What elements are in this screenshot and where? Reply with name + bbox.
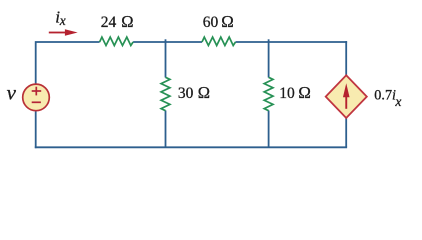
svg-text:60Ω: 60Ω — [203, 12, 234, 31]
dependent source arrow — [343, 83, 350, 109]
svg-text:0.7i: 0.7i — [374, 88, 396, 104]
svg-text:24Ω: 24Ω — [101, 12, 134, 31]
wire right branch upper — [345, 41, 347, 76]
wire bottom — [35, 146, 347, 148]
current arrow i_x — [49, 29, 78, 35]
svg-text:x: x — [59, 13, 66, 28]
voltage source minus sign — [32, 101, 41, 103]
wire middle branch upper — [165, 39, 167, 77]
voltage source V circle — [23, 84, 50, 111]
resistor 10ohm zigzag (vertical) — [264, 77, 273, 110]
wire top-left segment — [36, 42, 100, 84]
svg-text:v: v — [7, 81, 17, 105]
wire top middle segment — [133, 41, 202, 43]
wire top right segment — [236, 41, 348, 43]
wire middle branch lower — [165, 111, 167, 148]
dependent current source diamond — [326, 75, 367, 118]
wire right branch lower — [345, 118, 347, 148]
resistor 24ohm zigzag — [100, 37, 134, 45]
voltage source plus sign — [32, 87, 42, 96]
svg-text:x: x — [394, 94, 401, 109]
svg-text:30Ω: 30Ω — [178, 83, 210, 102]
wire left bottom segment — [35, 111, 37, 148]
resistor 60ohm zigzag — [202, 37, 236, 45]
resistor 30ohm zigzag (vertical) — [161, 77, 170, 110]
wire second branch lower — [268, 111, 270, 148]
svg-text:10Ω: 10Ω — [279, 83, 311, 102]
wire second branch upper — [268, 39, 270, 77]
